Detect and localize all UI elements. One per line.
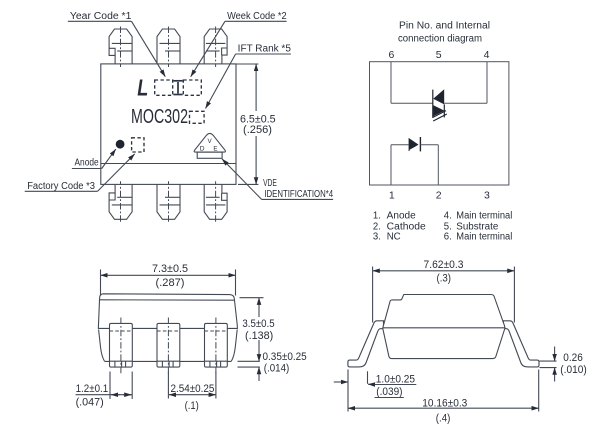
dimension 7.3 extension lines	[100, 270, 102, 296]
svg-text:Year Code *1: Year Code *1	[70, 11, 132, 22]
svg-text:Main terminal: Main terminal	[456, 210, 512, 221]
date code I mark	[173, 81, 182, 95]
svg-text:(.010): (.010)	[560, 364, 587, 376]
dimension 2.54 extension lines	[167, 372, 169, 399]
triac slanted cathode bar	[432, 111, 446, 118]
package body outline (top view)	[101, 64, 236, 184]
body parting line	[383, 327, 505, 329]
svg-text:VDE: VDE	[263, 178, 277, 189]
pin 1 (top row) outline	[109, 27, 227, 68]
dimension 6.5±0.5 line	[255, 64, 257, 111]
wire LED to pin2	[420, 144, 438, 146]
pin 3 centerline	[215, 27, 217, 68]
dimension 3.5 extension lines	[240, 297, 264, 299]
dimension 7.3 line	[101, 274, 236, 276]
LED white slash	[410, 146, 419, 151]
LED cathode bar	[419, 137, 421, 151]
dimension 1.0 arrows	[334, 381, 348, 383]
svg-text:Cathode: Cathode	[387, 221, 426, 232]
svg-text:5.: 5.	[444, 221, 452, 232]
body bottom line	[105, 360, 232, 362]
side pin 1	[110, 318, 133, 375]
svg-text:7.3±0.5: 7.3±0.5	[152, 263, 188, 275]
svg-text:L: L	[137, 74, 148, 100]
svg-text:Substrate: Substrate	[456, 221, 498, 232]
svg-text:Anode: Anode	[75, 158, 99, 169]
body right edge	[234, 299, 237, 325]
svg-text:(.039): (.039)	[376, 386, 402, 398]
week code dashed box	[183, 80, 201, 95]
svg-text:1.2±0.1: 1.2±0.1	[76, 383, 109, 395]
svg-text:2.54±0.25: 2.54±0.25	[171, 383, 215, 395]
leader VDE identification	[222, 159, 262, 200]
svg-text:(.287): (.287)	[156, 277, 185, 289]
svg-text:IFT Rank *5: IFT Rank *5	[238, 44, 292, 55]
body ledge line segments	[98, 325, 237, 329]
left lead (outline band)	[348, 321, 384, 367]
dimension 10.16 line	[348, 407, 539, 409]
triac left bar	[432, 90, 434, 118]
VDE mark base	[197, 152, 222, 158]
dimension 6.5±0.5 extension bottom	[238, 183, 258, 185]
body front outline	[383, 295, 505, 359]
body top second line	[100, 299, 235, 301]
body top outline	[100, 294, 235, 299]
pin 1 side notch	[109, 48, 115, 55]
dimension 1.2 line with outward arrows	[76, 394, 133, 396]
svg-text:6: 6	[389, 49, 395, 61]
dimension 10.16 extension line right	[538, 370, 540, 412]
body lower left edge	[99, 330, 105, 362]
svg-text:4: 4	[484, 49, 490, 61]
dimension 7.62 line	[373, 270, 515, 272]
svg-text:(.047): (.047)	[76, 396, 104, 408]
svg-text:2.: 2.	[373, 221, 381, 232]
svg-text:1: 1	[389, 190, 395, 202]
wire pin2 down	[437, 145, 439, 185]
wire pin1 to LED	[391, 144, 409, 146]
pin 2 shoulder lines	[160, 42, 180, 44]
svg-text:3.5±0.5: 3.5±0.5	[242, 318, 274, 330]
dimension 7.62 extension lines	[372, 267, 374, 323]
package outline rectangle	[370, 62, 509, 185]
svg-text:MOC302: MOC302	[131, 105, 188, 128]
pin 3 (top row) outline	[204, 29, 227, 64]
svg-text:Factory Code *3: Factory Code *3	[27, 181, 95, 192]
dimension 0.35 lower arrow line	[258, 367, 260, 381]
LED triangle	[409, 138, 419, 151]
svg-text:V: V	[208, 139, 212, 145]
leader IFT rank	[206, 54, 236, 109]
side pin 3	[205, 318, 228, 375]
dimension 1.0 extension lines	[347, 370, 349, 412]
wire pin4 down	[486, 62, 488, 103]
svg-text:connection diagram: connection diagram	[398, 33, 482, 44]
svg-text:(.256): (.256)	[243, 124, 272, 136]
svg-text:(.3): (.3)	[437, 272, 452, 284]
wire triac right to pin4	[444, 102, 487, 104]
svg-text:(.014): (.014)	[264, 362, 290, 374]
svg-text:7.62±0.3: 7.62±0.3	[424, 259, 464, 271]
leader year code	[132, 21, 166, 76]
dimension 3.5 line	[258, 298, 260, 317]
bottom row pins (mirror of top pins)	[109, 181, 227, 222]
svg-text:1.: 1.	[373, 210, 381, 221]
svg-text:D: D	[200, 146, 205, 153]
svg-text:E: E	[213, 146, 218, 153]
VDE triangle mark	[194, 133, 225, 152]
svg-text:3.: 3.	[373, 232, 381, 243]
anode index dot	[116, 140, 125, 149]
svg-text:Anode: Anode	[387, 210, 416, 221]
svg-text:4.: 4.	[444, 210, 452, 221]
svg-text:10.16±0.3: 10.16±0.3	[422, 398, 467, 410]
svg-text:(.4): (.4)	[436, 413, 451, 425]
svg-text:Main terminal: Main terminal	[456, 232, 512, 243]
wire pin1 up	[390, 145, 392, 185]
body left edge	[99, 298, 100, 325]
leader anode	[102, 149, 116, 168]
body lower right edge	[231, 330, 237, 362]
dimension 0.26 arrows	[554, 347, 556, 362]
svg-text:6.: 6.	[444, 232, 452, 243]
dimension 0.26 reference lines	[540, 360, 557, 362]
svg-text:IDENTIFICATION*4: IDENTIFICATION*4	[264, 189, 333, 200]
pin 2 (top row) outline	[157, 29, 180, 64]
side pin 2	[157, 318, 180, 375]
dimension 2.54 line	[169, 394, 216, 396]
pin 2 centerline	[168, 27, 170, 68]
dimension 1.2 extension lines	[109, 372, 111, 400]
svg-text:(.1): (.1)	[185, 400, 199, 412]
wire pin6 down	[390, 62, 392, 103]
wire horizontal to triac left	[391, 102, 433, 104]
pin 1 shoulder lines	[112, 42, 132, 44]
pin 3 shoulder lines	[206, 42, 226, 44]
IFT rank dashed box	[190, 111, 205, 123]
svg-text:5: 5	[436, 49, 442, 61]
year code dashed box	[155, 80, 173, 95]
triac lower triangle	[433, 105, 444, 116]
pin 1 centerline	[120, 27, 122, 68]
svg-text:2: 2	[436, 190, 442, 202]
pin 3 side notch	[222, 48, 228, 55]
svg-text:0.26: 0.26	[563, 352, 583, 364]
factory code dashed box	[132, 138, 144, 152]
leader week code	[191, 21, 225, 76]
dimension 6.5±0.5 extension top	[233, 63, 259, 65]
triac right bar	[443, 104, 445, 117]
triac upper triangle	[433, 89, 444, 104]
right lead (outline band)	[503, 321, 539, 367]
leader factory code	[98, 154, 135, 191]
svg-text:Week Code *2: Week Code *2	[227, 11, 287, 22]
svg-text:NC: NC	[387, 232, 401, 243]
svg-text:(.138): (.138)	[245, 330, 273, 342]
svg-text:1.0±0.25: 1.0±0.25	[376, 373, 415, 385]
package step line near bottom	[101, 163, 236, 165]
svg-text:3: 3	[484, 190, 490, 202]
svg-text:Pin No. and Internal: Pin No. and Internal	[399, 20, 490, 31]
